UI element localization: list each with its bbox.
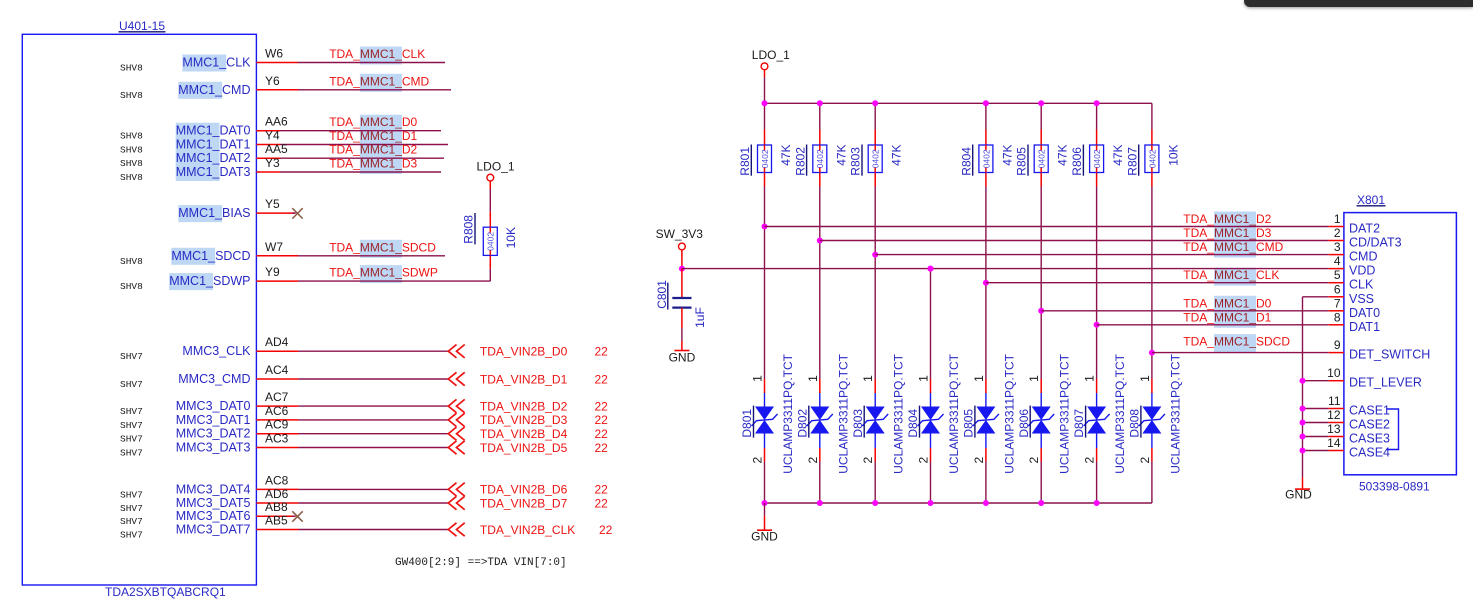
svg-text:CASE4: CASE4 xyxy=(1349,446,1390,460)
svg-text:TDA_MMC1_SDCD: TDA_MMC1_SDCD xyxy=(329,240,436,254)
svg-text:0402: 0402 xyxy=(1092,149,1102,168)
svg-text:GND: GND xyxy=(751,530,778,544)
svg-text:TDA_MMC1_D1: TDA_MMC1_D1 xyxy=(329,129,417,143)
svg-text:47K: 47K xyxy=(779,144,793,165)
svg-text:SHV7: SHV7 xyxy=(120,489,143,500)
svg-text:Y3: Y3 xyxy=(265,156,280,170)
svg-text:0402: 0402 xyxy=(486,232,496,251)
svg-text:CMD: CMD xyxy=(1349,250,1377,264)
svg-text:MMC1_SDWP: MMC1_SDWP xyxy=(169,274,250,288)
svg-text:MMC3_DAT7: MMC3_DAT7 xyxy=(176,523,251,537)
svg-text:1: 1 xyxy=(1027,375,1041,382)
svg-text:SHV8: SHV8 xyxy=(120,131,143,142)
svg-text:UCLAMP3311PQ.TCT: UCLAMP3311PQ.TCT xyxy=(892,353,906,473)
svg-text:CLK: CLK xyxy=(1349,278,1374,292)
svg-text:1: 1 xyxy=(751,375,765,382)
svg-text:AB8: AB8 xyxy=(265,500,288,514)
svg-text:AC9: AC9 xyxy=(265,418,289,432)
svg-text:R807: R807 xyxy=(1125,147,1139,176)
svg-text:DET_LEVER: DET_LEVER xyxy=(1349,376,1422,390)
svg-text:Y9: Y9 xyxy=(265,265,280,279)
svg-text:SHV8: SHV8 xyxy=(120,145,143,156)
svg-text:SHV7: SHV7 xyxy=(120,406,143,417)
svg-text:TDA_MMC1_D1: TDA_MMC1_D1 xyxy=(1183,310,1271,324)
svg-text:2: 2 xyxy=(1083,457,1097,464)
svg-text:SHV8: SHV8 xyxy=(120,256,143,267)
svg-text:10K: 10K xyxy=(504,227,518,248)
svg-text:TDA_VIN2B_D6: TDA_VIN2B_D6 xyxy=(480,483,568,497)
svg-text:7: 7 xyxy=(1334,296,1341,310)
svg-text:AC8: AC8 xyxy=(265,473,289,487)
svg-text:CASE2: CASE2 xyxy=(1349,418,1390,432)
svg-text:UCLAMP3311PQ.TCT: UCLAMP3311PQ.TCT xyxy=(1002,353,1016,473)
svg-text:SW_3V3: SW_3V3 xyxy=(656,227,704,241)
svg-text:0402: 0402 xyxy=(815,149,825,168)
svg-text:AC3: AC3 xyxy=(265,432,289,446)
svg-text:2: 2 xyxy=(751,457,765,464)
svg-text:MMC3_DAT1: MMC3_DAT1 xyxy=(176,413,251,427)
svg-text:TDA_MMC1_D2: TDA_MMC1_D2 xyxy=(329,143,417,157)
svg-text:MMC3_DAT3: MMC3_DAT3 xyxy=(176,441,251,455)
svg-text:10: 10 xyxy=(1327,366,1341,380)
svg-text:3: 3 xyxy=(1334,240,1341,254)
svg-text:MMC1_CLK: MMC1_CLK xyxy=(182,56,251,70)
svg-text:LDO_1: LDO_1 xyxy=(477,159,515,173)
svg-text:UCLAMP3311PQ.TCT: UCLAMP3311PQ.TCT xyxy=(781,353,795,473)
svg-text:R803: R803 xyxy=(849,147,863,176)
svg-text:22: 22 xyxy=(595,413,609,427)
svg-text:MMC1_CMD: MMC1_CMD xyxy=(178,83,250,97)
svg-text:6: 6 xyxy=(1334,282,1341,296)
svg-text:SHV7: SHV7 xyxy=(120,420,143,431)
svg-text:2: 2 xyxy=(917,457,931,464)
svg-text:SHV8: SHV8 xyxy=(120,158,143,169)
svg-text:UCLAMP3311PQ.TCT: UCLAMP3311PQ.TCT xyxy=(1113,353,1127,473)
svg-text:MMC1_DAT3: MMC1_DAT3 xyxy=(176,165,251,179)
svg-text:DET_SWITCH: DET_SWITCH xyxy=(1349,348,1430,362)
svg-text:22: 22 xyxy=(599,523,613,537)
svg-text:Y5: Y5 xyxy=(265,197,280,211)
svg-text:R802: R802 xyxy=(793,147,807,176)
svg-text:22: 22 xyxy=(595,496,609,510)
svg-text:C801: C801 xyxy=(655,280,669,309)
svg-text:GW400[2:9] ==>TDA VIN[7:0]: GW400[2:9] ==>TDA VIN[7:0] xyxy=(395,557,567,569)
svg-text:D806: D806 xyxy=(1017,409,1031,438)
svg-text:1: 1 xyxy=(972,375,986,382)
svg-text:TDA_MMC1_D3: TDA_MMC1_D3 xyxy=(1183,226,1271,240)
svg-text:MMC3_DAT2: MMC3_DAT2 xyxy=(176,427,251,441)
svg-text:R808: R808 xyxy=(462,215,476,244)
svg-text:MMC3_DAT5: MMC3_DAT5 xyxy=(176,496,251,510)
svg-text:1: 1 xyxy=(1083,375,1097,382)
svg-text:0402: 0402 xyxy=(871,149,881,168)
svg-text:1uF: 1uF xyxy=(693,307,707,328)
svg-text:AB5: AB5 xyxy=(265,514,288,528)
svg-text:22: 22 xyxy=(595,427,609,441)
svg-text:TDA_MMC1_D2: TDA_MMC1_D2 xyxy=(1183,212,1271,226)
svg-text:47K: 47K xyxy=(1056,144,1070,165)
svg-text:22: 22 xyxy=(595,399,609,413)
svg-text:R805: R805 xyxy=(1015,147,1029,176)
svg-text:SHV7: SHV7 xyxy=(120,530,143,541)
svg-text:MMC1_DAT2: MMC1_DAT2 xyxy=(176,151,251,165)
svg-text:GND: GND xyxy=(1285,488,1312,502)
svg-text:MMC3_DAT4: MMC3_DAT4 xyxy=(176,482,251,496)
svg-text:D803: D803 xyxy=(851,409,865,438)
svg-text:UCLAMP3311PQ.TCT: UCLAMP3311PQ.TCT xyxy=(947,353,961,473)
svg-text:UCLAMP3311PQ.TCT: UCLAMP3311PQ.TCT xyxy=(1058,353,1072,473)
svg-text:TDA_MMC1_CMD: TDA_MMC1_CMD xyxy=(1183,240,1283,254)
svg-text:MMC1_DAT1: MMC1_DAT1 xyxy=(176,138,251,152)
svg-text:MMC1_SDCD: MMC1_SDCD xyxy=(171,249,250,263)
svg-text:TDA_VIN2B_D1: TDA_VIN2B_D1 xyxy=(480,372,568,386)
svg-text:SHV8: SHV8 xyxy=(120,90,143,101)
svg-text:10K: 10K xyxy=(1166,144,1180,165)
svg-text:SHV7: SHV7 xyxy=(120,448,143,459)
svg-text:SHV7: SHV7 xyxy=(120,516,143,527)
svg-text:DAT1: DAT1 xyxy=(1349,320,1380,334)
svg-text:TDA_MMC1_CLK: TDA_MMC1_CLK xyxy=(1183,268,1279,282)
svg-text:TDA_VIN2B_D0: TDA_VIN2B_D0 xyxy=(480,345,568,359)
svg-text:TDA_MMC1_CLK: TDA_MMC1_CLK xyxy=(329,47,425,61)
svg-text:0402: 0402 xyxy=(760,149,770,168)
svg-text:TDA2SXBTQABCRQ1: TDA2SXBTQABCRQ1 xyxy=(105,585,226,599)
svg-text:1: 1 xyxy=(861,375,875,382)
svg-text:D801: D801 xyxy=(740,409,754,438)
svg-text:U401-15: U401-15 xyxy=(119,19,165,33)
svg-text:13: 13 xyxy=(1327,422,1341,436)
svg-text:TDA_MMC1_SDWP: TDA_MMC1_SDWP xyxy=(329,266,438,280)
svg-text:W6: W6 xyxy=(265,47,283,61)
svg-text:MMC3_DAT0: MMC3_DAT0 xyxy=(176,399,251,413)
svg-text:SHV7: SHV7 xyxy=(120,503,143,514)
svg-text:D804: D804 xyxy=(906,409,920,438)
svg-text:SHV7: SHV7 xyxy=(120,434,143,445)
svg-text:W7: W7 xyxy=(265,240,283,254)
svg-text:D808: D808 xyxy=(1128,409,1142,438)
svg-text:MMC3_CLK: MMC3_CLK xyxy=(182,344,251,358)
svg-text:D807: D807 xyxy=(1072,409,1086,438)
svg-text:MMC3_DAT6: MMC3_DAT6 xyxy=(176,509,251,523)
svg-text:MMC3_CMD: MMC3_CMD xyxy=(178,372,250,386)
svg-text:TDA_MMC1_D0: TDA_MMC1_D0 xyxy=(1183,296,1271,310)
svg-text:2: 2 xyxy=(1027,457,1041,464)
svg-text:Y6: Y6 xyxy=(265,74,280,88)
svg-text:2: 2 xyxy=(861,457,875,464)
svg-text:11: 11 xyxy=(1328,394,1341,408)
svg-text:47K: 47K xyxy=(890,144,904,165)
svg-text:SHV7: SHV7 xyxy=(120,379,143,390)
svg-text:CASE3: CASE3 xyxy=(1349,432,1390,446)
svg-text:1: 1 xyxy=(806,375,820,382)
svg-text:UCLAMP3311PQ.TCT: UCLAMP3311PQ.TCT xyxy=(836,353,850,473)
svg-text:GND: GND xyxy=(669,351,696,365)
svg-text:AA5: AA5 xyxy=(265,142,288,156)
svg-text:TDA_VIN2B_CLK: TDA_VIN2B_CLK xyxy=(480,523,575,537)
svg-text:Y4: Y4 xyxy=(265,129,280,143)
svg-text:TDA_VIN2B_D5: TDA_VIN2B_D5 xyxy=(480,441,568,455)
svg-text:VSS: VSS xyxy=(1349,292,1374,306)
svg-text:SHV7: SHV7 xyxy=(120,351,143,362)
svg-text:MMC1_DAT0: MMC1_DAT0 xyxy=(176,124,251,138)
svg-text:X801: X801 xyxy=(1357,193,1385,207)
svg-text:8: 8 xyxy=(1334,310,1341,324)
svg-text:0402: 0402 xyxy=(981,149,991,168)
svg-text:AA6: AA6 xyxy=(265,115,288,129)
svg-text:47K: 47K xyxy=(1111,144,1125,165)
svg-text:12: 12 xyxy=(1327,408,1341,422)
svg-text:1: 1 xyxy=(1334,212,1341,226)
svg-text:5: 5 xyxy=(1334,268,1341,282)
svg-text:TDA_MMC1_SDCD: TDA_MMC1_SDCD xyxy=(1183,335,1290,349)
svg-text:TDA_VIN2B_D2: TDA_VIN2B_D2 xyxy=(480,399,568,413)
svg-text:AD4: AD4 xyxy=(265,335,289,349)
svg-text:AC4: AC4 xyxy=(265,363,289,377)
svg-text:AD6: AD6 xyxy=(265,487,289,501)
svg-text:LDO_1: LDO_1 xyxy=(752,48,790,62)
svg-text:47K: 47K xyxy=(1000,144,1014,165)
svg-text:4: 4 xyxy=(1334,254,1341,268)
svg-text:22: 22 xyxy=(595,441,609,455)
svg-text:TDA_VIN2B_D4: TDA_VIN2B_D4 xyxy=(480,427,568,441)
svg-text:2: 2 xyxy=(1138,457,1152,464)
svg-text:TDA_VIN2B_D7: TDA_VIN2B_D7 xyxy=(480,496,568,510)
svg-text:1: 1 xyxy=(1138,375,1152,382)
svg-text:503398-0891: 503398-0891 xyxy=(1359,479,1430,493)
svg-text:0402: 0402 xyxy=(1147,149,1157,168)
svg-text:R806: R806 xyxy=(1070,147,1084,176)
svg-text:TDA_MMC1_D3: TDA_MMC1_D3 xyxy=(329,157,417,171)
svg-text:47K: 47K xyxy=(834,144,848,165)
svg-text:AC6: AC6 xyxy=(265,404,289,418)
svg-text:9: 9 xyxy=(1334,338,1341,352)
svg-text:0402: 0402 xyxy=(1037,149,1047,168)
svg-text:22: 22 xyxy=(595,372,609,386)
svg-text:D802: D802 xyxy=(795,409,809,438)
svg-text:VDD: VDD xyxy=(1349,264,1375,278)
svg-text:2: 2 xyxy=(972,457,986,464)
svg-text:TDA_MMC1_D0: TDA_MMC1_D0 xyxy=(329,115,417,129)
svg-text:D805: D805 xyxy=(962,409,976,438)
svg-text:AC7: AC7 xyxy=(265,390,289,404)
svg-text:R804: R804 xyxy=(959,147,973,176)
svg-text:CASE1: CASE1 xyxy=(1349,404,1390,418)
svg-text:1: 1 xyxy=(917,375,931,382)
svg-text:CD/DAT3: CD/DAT3 xyxy=(1349,236,1402,250)
svg-text:TDA_MMC1_CMD: TDA_MMC1_CMD xyxy=(329,74,429,88)
svg-text:TDA_VIN2B_D3: TDA_VIN2B_D3 xyxy=(480,413,568,427)
svg-text:SHV8: SHV8 xyxy=(120,63,143,74)
svg-text:MMC1_BIAS: MMC1_BIAS xyxy=(178,206,250,220)
svg-text:22: 22 xyxy=(595,345,609,359)
svg-text:2: 2 xyxy=(806,457,820,464)
svg-text:DAT2: DAT2 xyxy=(1349,222,1380,236)
svg-text:UCLAMP3311PQ.TCT: UCLAMP3311PQ.TCT xyxy=(1168,353,1182,473)
svg-text:DAT0: DAT0 xyxy=(1349,306,1380,320)
svg-text:2: 2 xyxy=(1334,226,1341,240)
svg-text:SHV8: SHV8 xyxy=(120,172,143,183)
svg-text:SHV8: SHV8 xyxy=(120,281,143,292)
svg-text:R801: R801 xyxy=(738,147,752,176)
svg-text:22: 22 xyxy=(595,483,609,497)
svg-text:14: 14 xyxy=(1327,436,1341,450)
